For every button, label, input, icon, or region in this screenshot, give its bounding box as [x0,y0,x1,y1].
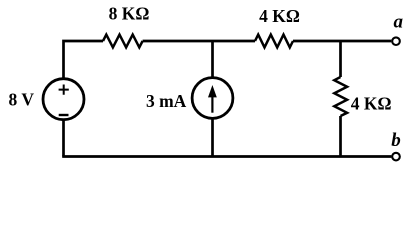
wire top-left corner: from voltage source top up and right to R1 [64,41,104,78]
wire: top rail junction down to R3 [339,41,342,77]
wire: top rail down to current source [211,41,214,77]
svg-text:4 KΩ: 4 KΩ [259,6,300,26]
svg-text:8 KΩ: 8 KΩ [109,4,150,24]
voltage source V1 circle [43,79,84,120]
arrow of current source I1 (pointing up) [211,95,213,113]
terminal a open circle [392,37,400,45]
svg-text:b: b [391,130,401,151]
wire: R3 bottom to bottom rail [339,116,342,157]
svg-text:8 V: 8 V [9,90,35,110]
resistor R3 4 K ohm (right vertical zigzag) [334,77,347,116]
svg-text:4 KΩ: 4 KΩ [351,94,392,114]
wire: R1 to R2 along top, passing node above current source [143,40,255,43]
wire: current source bottom to bottom rail [211,120,214,157]
wire: V1 bottom down to bottom rail [62,121,65,157]
svg-text:3 mA: 3 mA [146,91,187,111]
plus sign of V1 [59,85,69,95]
resistor R1 8 K ohm (top-left zigzag) [103,35,143,48]
svg-text:a: a [393,12,403,33]
bottom rail wire to terminal b [62,155,391,158]
current source I1 circle [192,78,233,119]
wire: R2 to terminal a [293,40,391,43]
resistor R2 4 K ohm (top-right zigzag) [255,35,293,48]
minus sign of V1 [59,114,69,116]
terminal b open circle [392,153,400,161]
